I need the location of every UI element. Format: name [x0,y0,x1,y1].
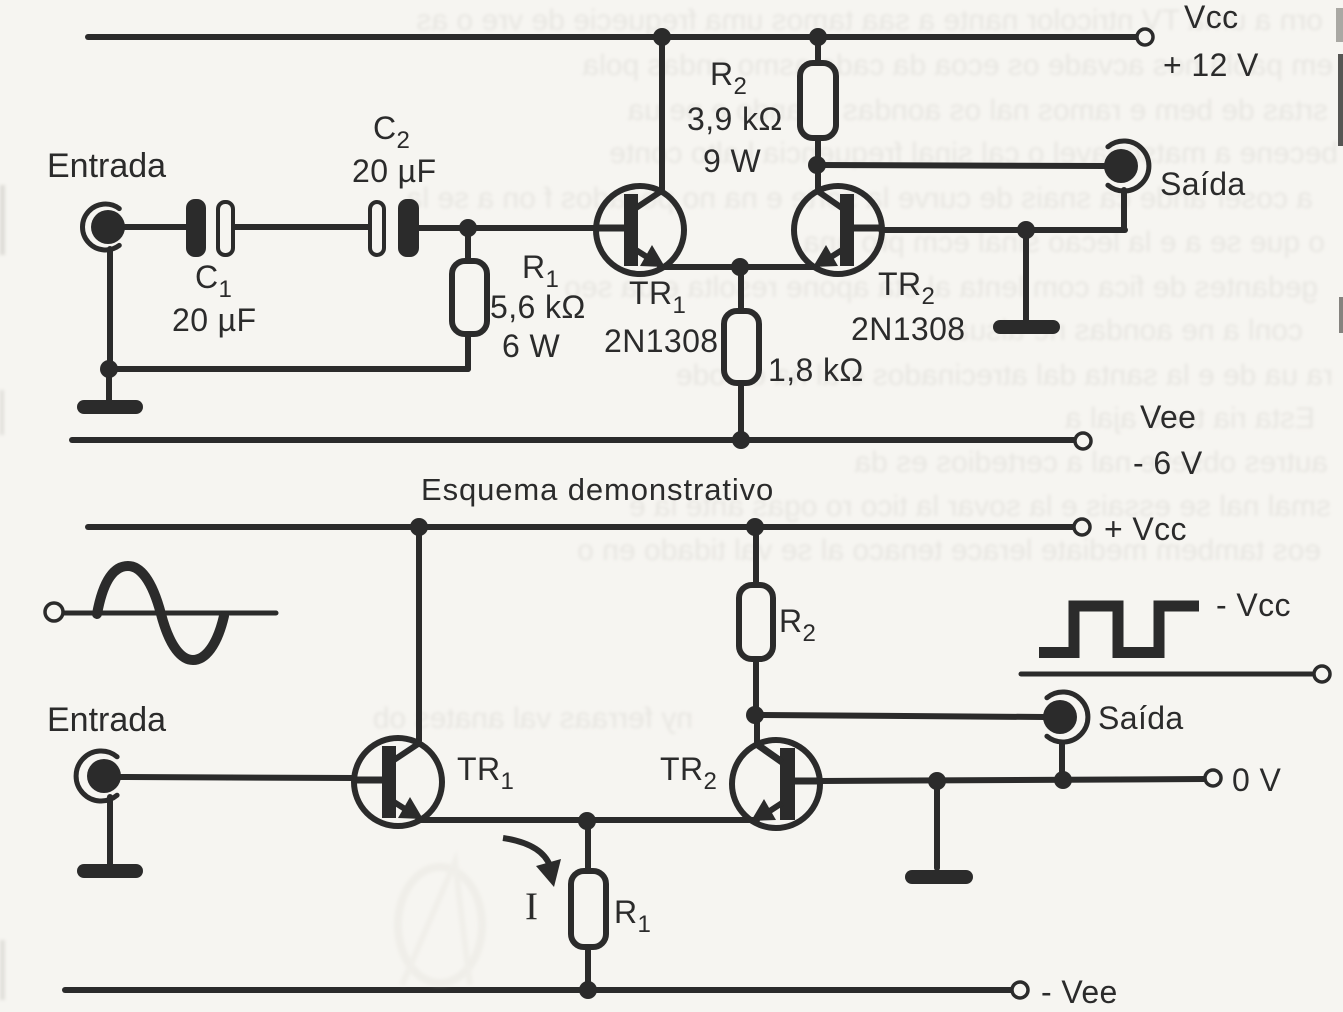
svg-text:+ 12 V: + 12 V [1163,47,1259,83]
svg-text:0 V: 0 V [1232,762,1281,798]
svg-text:Entrada: Entrada [47,147,166,185]
svg-text:20 µF: 20 µF [172,302,256,338]
svg-text:5,6 kΩ: 5,6 kΩ [490,289,586,325]
svg-text:Vee: Vee [1140,399,1196,435]
svg-text:20 µF: 20 µF [352,153,436,189]
svg-text:1,8 kΩ: 1,8 kΩ [768,352,864,388]
svg-text:Saída: Saída [1160,166,1246,202]
svg-text:+ Vcc: + Vcc [1104,511,1187,547]
svg-text:autres obseve nal a certedios: autres obseve nal a certedios es da [854,446,1328,479]
svg-text:2N1308: 2N1308 [851,311,966,347]
svg-text:Saída: Saída [1098,700,1184,736]
svg-text:6 W: 6 W [502,328,560,364]
svg-text:- Vcc: - Vcc [1216,587,1291,623]
svg-text:I: I [525,885,538,928]
svg-text:- Vee: - Vee [1041,974,1118,1010]
svg-text:Vcc: Vcc [1184,0,1239,35]
svg-text:2N1308: 2N1308 [604,323,719,359]
svg-text:- 6 V: - 6 V [1133,445,1203,481]
svg-text:Esquema demonstrativo: Esquema demonstrativo [421,472,774,507]
svg-text:Entrada: Entrada [47,701,166,739]
svg-text:9 W: 9 W [703,143,761,179]
svg-text:3,9 kΩ: 3,9 kΩ [687,101,783,137]
svg-text:eos tambem mediate lerace tena: eos tambem mediate lerace tenaco al se v… [577,534,1321,567]
